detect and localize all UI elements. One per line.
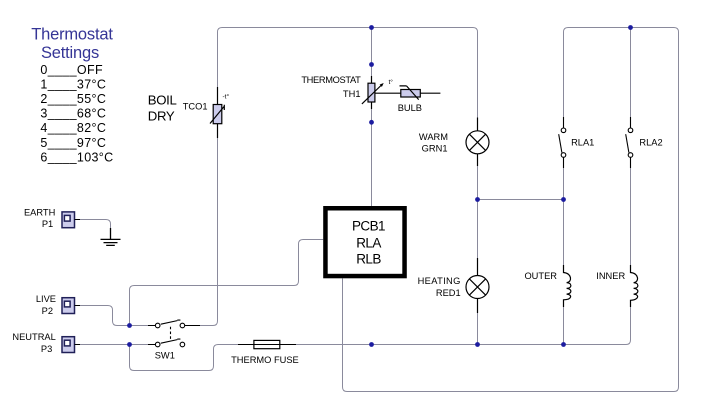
svg-text:OUTER: OUTER: [524, 271, 557, 281]
svg-text:BULB: BULB: [398, 103, 422, 113]
svg-text:TCO1: TCO1: [183, 101, 208, 111]
svg-text:LIVE: LIVE: [36, 294, 56, 304]
svg-text:SW1: SW1: [155, 350, 175, 360]
svg-text:5____97°C: 5____97°C: [40, 136, 106, 150]
svg-text:t°: t°: [389, 78, 394, 86]
svg-text:WARM: WARM: [419, 132, 448, 142]
svg-text:RED1: RED1: [436, 288, 461, 298]
svg-text:THERMO FUSE: THERMO FUSE: [231, 355, 299, 365]
svg-text:PCB1: PCB1: [352, 218, 385, 233]
svg-text:EARTH: EARTH: [24, 207, 55, 217]
svg-text:Settings: Settings: [41, 44, 99, 62]
svg-text:2____55°C: 2____55°C: [40, 92, 106, 106]
svg-text:RLA: RLA: [356, 236, 381, 251]
svg-text:-t°: -t°: [223, 93, 230, 101]
svg-text:GRN1: GRN1: [422, 143, 448, 153]
svg-text:DRY: DRY: [148, 108, 175, 123]
svg-text:RLA2: RLA2: [639, 138, 662, 148]
svg-text:6____103°C: 6____103°C: [40, 150, 113, 164]
svg-text:P3: P3: [41, 344, 52, 354]
svg-text:NEUTRAL: NEUTRAL: [12, 332, 55, 342]
svg-text:3____68°C: 3____68°C: [40, 107, 106, 121]
svg-text:RLB: RLB: [356, 252, 381, 267]
svg-text:P1: P1: [42, 219, 53, 229]
svg-text:P2: P2: [42, 306, 53, 316]
svg-text:RLA1: RLA1: [571, 138, 594, 148]
svg-text:TH1: TH1: [343, 89, 361, 99]
svg-text:Thermostat: Thermostat: [31, 26, 113, 44]
svg-text:1____37°C: 1____37°C: [40, 78, 106, 92]
svg-text:4____82°C: 4____82°C: [40, 121, 106, 135]
svg-text:HEATING: HEATING: [418, 276, 461, 286]
svg-text:INNER: INNER: [596, 271, 625, 281]
svg-text:BOIL: BOIL: [148, 93, 177, 108]
svg-text:0____OFF: 0____OFF: [40, 63, 103, 77]
svg-text:THERMOSTAT: THERMOSTAT: [301, 75, 361, 85]
